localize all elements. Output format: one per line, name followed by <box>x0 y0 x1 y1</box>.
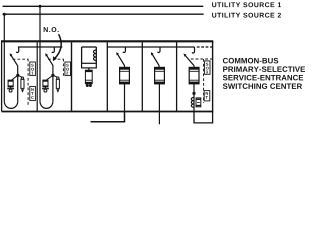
utility source 2 line <box>3 13 204 15</box>
enclosure left border <box>1 41 3 111</box>
feeder switch S4 contact stub <box>159 47 161 51</box>
wire fuse branch cell 1 <box>12 75 18 80</box>
wire S2 load <box>52 66 54 102</box>
interlock box A cell 2 <box>65 62 71 76</box>
grounding transformer winding <box>191 97 194 107</box>
metering riser left <box>81 47 83 63</box>
common bus feeder section <box>107 46 194 48</box>
feeder switch S3 contact stub <box>124 47 126 51</box>
grounding transformer box <box>196 98 201 107</box>
interlock dashed link cell 2 <box>48 58 63 60</box>
switch S2 blade <box>46 55 53 66</box>
cable loop cell 1 <box>4 101 17 108</box>
feeder switch S5 contact (bus corner) <box>194 47 196 52</box>
bus jumper metering cell <box>82 46 97 48</box>
metering riser right <box>95 47 97 63</box>
label PRIMARY-SELECTIVE <box>223 66 305 72</box>
label N.O. <box>44 27 59 32</box>
interlock box B feeder 3 <box>204 91 210 101</box>
divider between source cells <box>36 42 38 111</box>
interlock box A cell 1 <box>30 62 36 76</box>
utility source 1 line <box>3 5 204 7</box>
fuse F5 <box>189 67 199 83</box>
wire VT drop <box>88 68 90 70</box>
divider metering/feeder1 <box>106 42 108 111</box>
feeder switch S5 blade <box>185 55 194 66</box>
label COMMON-BUS <box>223 58 278 64</box>
cable loop cell 2 <box>40 101 53 108</box>
interlock dashed link cell 1 <box>13 58 29 60</box>
wire feeder 1 load drop <box>124 84 126 112</box>
label SWITCHING CENTER <box>223 83 302 89</box>
node tap source 2 <box>3 13 6 16</box>
interlock box B cell 1 <box>30 86 36 100</box>
interlock dashed link feeder 3 <box>191 58 213 60</box>
enclosure right border <box>212 41 214 111</box>
fuse F3 <box>120 67 130 83</box>
label UTILITY SOURCE 1 <box>212 2 281 7</box>
wire S3 to fuse <box>124 66 126 68</box>
label UTILITY SOURCE 2 <box>212 13 281 18</box>
feeder switch S3 blade <box>117 54 124 66</box>
divider source/metering <box>71 42 73 111</box>
switch S2 contact stub <box>53 47 55 51</box>
divider feeder2/feeder3 <box>176 42 178 111</box>
switch S1 blade <box>11 55 18 66</box>
future bus dashed <box>197 46 213 48</box>
node junction cell 2 <box>51 74 54 77</box>
fuse VT cell 2 <box>42 80 49 92</box>
surge arrester cell 2 <box>53 75 60 92</box>
VT fuse <box>85 70 92 84</box>
fuse VT cell 1 <box>7 80 14 92</box>
bus jumper source section <box>18 46 63 48</box>
node tap grounding transformer <box>192 92 195 95</box>
wire drop source 1 <box>39 6 41 101</box>
enclosure bottom border <box>2 111 214 113</box>
interlock box A feeder 3 <box>205 61 210 74</box>
wire feeder 2 exit stub <box>158 111 160 124</box>
CT winding <box>94 50 97 61</box>
wire drop source 2 <box>3 14 5 101</box>
VT bushings <box>86 84 89 87</box>
feeder switch S4 blade <box>152 54 159 66</box>
surge arrester cell 1 <box>18 75 24 92</box>
interlock dashed riser cell 1 <box>27 59 29 105</box>
wire grounding exit loop <box>194 111 213 123</box>
label SERVICE-ENTRANCE <box>223 75 303 81</box>
node tap source 1 <box>39 5 42 8</box>
arrow N.O. <box>55 34 61 58</box>
interlock dashed riser feeder 3 <box>203 59 205 103</box>
wire fuse branch cell 2 <box>47 75 53 80</box>
divider feeder1/feeder2 <box>141 42 143 111</box>
node junction cell 1 <box>16 74 19 77</box>
wire S1 load <box>17 66 19 102</box>
wire S4 to fuse <box>158 66 160 68</box>
wire S5 to fuse <box>193 66 195 68</box>
wire load exit <box>91 111 125 121</box>
fuse F4 <box>155 67 165 83</box>
wire feeder 2 load drop <box>158 84 160 112</box>
enclosure top border <box>1 40 213 42</box>
interlock dashed riser cell 2 <box>62 59 64 76</box>
metering compartment box <box>82 63 97 68</box>
wire feeder 3 load drop <box>193 84 195 112</box>
switch S1 contact stub <box>18 47 20 51</box>
